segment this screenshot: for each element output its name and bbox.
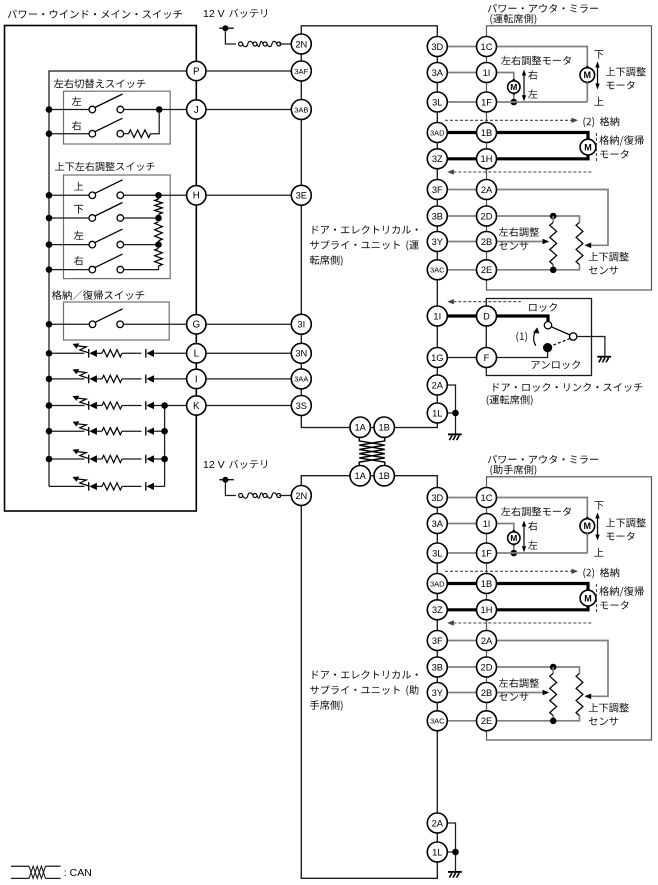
connector pin 2A bbox=[427, 375, 447, 395]
label hidari 1 bbox=[72, 97, 82, 106]
switch 左 (UDLR adjust) bbox=[89, 229, 124, 248]
junction chain mid1 bbox=[155, 215, 162, 222]
wire migi2 row to chain bbox=[124, 266, 159, 270]
wire L to 3N bbox=[206, 352, 292, 354]
dashed arrow return driver bbox=[447, 169, 593, 174]
svg-text:1F: 1F bbox=[481, 548, 492, 558]
svg-text:1F: 1F bbox=[481, 97, 492, 107]
label UD sensor l1 driver bbox=[589, 252, 629, 262]
connector pin 1I bbox=[477, 63, 497, 83]
svg-text:2A: 2A bbox=[432, 818, 444, 828]
wire LR sensor top lead driver bbox=[552, 216, 554, 222]
illumination LED branch aux4 bbox=[49, 449, 165, 463]
connector pin 1H bbox=[477, 600, 497, 620]
svg-text:3AF: 3AF bbox=[294, 67, 308, 76]
svg-text:12 V: 12 V bbox=[203, 8, 225, 20]
12V battery node passenger bbox=[219, 477, 234, 483]
junction sensor top passenger bbox=[550, 664, 557, 671]
wire battery drop driver bbox=[225, 28, 236, 44]
junction ground passenger bbox=[452, 849, 459, 856]
actuation arrow (1) bbox=[533, 327, 539, 345]
label migi arrow driver bbox=[528, 70, 537, 79]
dashed arrow retract passenger bbox=[445, 569, 578, 574]
connector pin 3Z bbox=[427, 600, 447, 620]
connector pin 3F bbox=[427, 180, 447, 200]
svg-text:3I: 3I bbox=[297, 320, 305, 330]
connector pin 1A bbox=[350, 466, 370, 486]
connector pin 2A bbox=[427, 813, 447, 833]
wire 3Y to 2B driver bbox=[447, 241, 477, 243]
CAN legend symbol bbox=[11, 866, 61, 878]
wire 3D to 1C driver bbox=[447, 46, 477, 48]
connector pin 2D bbox=[477, 657, 497, 677]
wire 3L to 1F passenger bbox=[447, 552, 477, 554]
label UD sensor l2 passenger bbox=[589, 717, 618, 725]
wire G to 3I bbox=[206, 323, 292, 325]
svg-text:1B: 1B bbox=[379, 471, 390, 481]
battery feed coil passenger bbox=[239, 493, 281, 498]
svg-text:L: L bbox=[194, 349, 200, 360]
svg-text:3Z: 3Z bbox=[432, 605, 443, 615]
svg-text:1B: 1B bbox=[379, 423, 390, 433]
junction bus migi bbox=[46, 130, 53, 137]
connector pin 2E bbox=[477, 260, 497, 280]
label 下 row bbox=[74, 205, 83, 214]
svg-text:1C: 1C bbox=[481, 42, 493, 52]
LR select switch box bbox=[64, 91, 171, 144]
junction sensor top driver bbox=[550, 213, 557, 220]
connector pin 1H bbox=[477, 149, 497, 169]
label LR adjust motor driver bbox=[501, 56, 571, 65]
connector pin L bbox=[187, 344, 206, 363]
label LR sensor l1 driver bbox=[499, 227, 539, 237]
wire bus to switch 上 bbox=[49, 194, 89, 196]
svg-text:3L: 3L bbox=[432, 548, 442, 558]
junction tie K bbox=[161, 402, 168, 409]
connector pin 3D bbox=[427, 488, 447, 508]
connector pin 1G bbox=[427, 348, 447, 368]
svg-text:M: M bbox=[584, 593, 592, 603]
junction sensor bottom driver bbox=[550, 267, 557, 274]
label migi 1 bbox=[72, 121, 81, 131]
connector pin 3Y bbox=[427, 683, 447, 703]
connector pin G bbox=[187, 315, 206, 334]
dashed arrow return passenger bbox=[447, 620, 593, 625]
label hidari arrow passenger bbox=[528, 540, 537, 549]
connector pin 1B bbox=[477, 574, 497, 594]
svg-text:M: M bbox=[584, 142, 592, 152]
label unit driver line2b bbox=[406, 240, 418, 250]
UDLR adjust switch box bbox=[64, 175, 171, 279]
dashed arrow unlock direction bbox=[447, 299, 521, 304]
junction bus led aux3 bbox=[46, 428, 53, 435]
wire 3AC to 2E passenger bbox=[447, 720, 477, 722]
svg-text:3AB: 3AB bbox=[294, 105, 308, 114]
connector pin 3L bbox=[427, 92, 447, 112]
label UD adjust motor l2 driver bbox=[607, 81, 635, 90]
connector pin 3E bbox=[291, 185, 311, 205]
door lock link switch box bbox=[486, 299, 591, 376]
wire hidari2 row to chain bbox=[124, 244, 159, 246]
connector pin 3AA bbox=[291, 369, 311, 389]
connector pin 3Z bbox=[427, 149, 447, 169]
label (2) kakunou passenger bbox=[583, 568, 594, 578]
wire 2A to ground driver bbox=[447, 385, 456, 413]
resistor chain 2 bbox=[155, 222, 163, 245]
junction hidari-migi tie bbox=[156, 106, 163, 113]
thick wire 3Z to 1H passenger bbox=[447, 608, 477, 611]
junction chain top bbox=[155, 192, 162, 199]
svg-text:1A: 1A bbox=[355, 471, 367, 481]
label retract motor l1 passenger bbox=[599, 586, 643, 597]
connector pin 2B bbox=[477, 683, 497, 703]
LR adjust motor M driver bbox=[508, 79, 520, 95]
UD adjust sensor resistor passenger bbox=[576, 673, 583, 715]
wire LR motor to 1F wire driver bbox=[513, 94, 515, 102]
wire coil to 2N passenger bbox=[279, 495, 291, 497]
label unit driver line2 bbox=[310, 240, 400, 249]
svg-text:2D: 2D bbox=[481, 211, 493, 221]
wire retract switch to G bbox=[123, 323, 186, 325]
svg-text:3E: 3E bbox=[296, 191, 307, 201]
arrow into UD sensor passenger bbox=[585, 694, 592, 700]
connector pin 1C bbox=[477, 488, 497, 508]
wire 3L to 1F driver bbox=[447, 101, 477, 103]
switch 右 (UDLR adjust) bbox=[89, 254, 124, 273]
connector pin J bbox=[187, 100, 206, 119]
label 12V battery driver bbox=[203, 8, 225, 20]
wire 3F to 2A passenger bbox=[447, 640, 477, 642]
connector pin 3AD bbox=[427, 574, 447, 594]
wire 1C to UD motor passenger bbox=[496, 498, 587, 519]
dashed line retract side driver bbox=[596, 133, 598, 162]
svg-text:3L: 3L bbox=[432, 97, 442, 107]
connector pin 1L bbox=[427, 842, 447, 862]
label unit passenger line3 bbox=[310, 700, 343, 711]
thick wire 3AD to 1B passenger bbox=[447, 582, 477, 585]
wire led tie line bbox=[164, 406, 166, 487]
svg-text:M: M bbox=[510, 82, 517, 92]
wire bus to switch hidari bbox=[49, 109, 89, 111]
connector pin 3B bbox=[427, 206, 447, 226]
label LR sensor l2 driver bbox=[499, 242, 528, 250]
svg-text:1H: 1H bbox=[481, 154, 493, 164]
junction tie aux5 bbox=[161, 456, 168, 463]
label ue arrow passenger bbox=[594, 548, 603, 557]
wire 2A sensor feed passenger bbox=[496, 641, 608, 697]
LR adjust motor M passenger bbox=[508, 530, 520, 546]
door electrical supply unit (passenger) box bbox=[301, 476, 437, 879]
connector pin H bbox=[187, 186, 206, 205]
connector pin 3D bbox=[427, 37, 447, 57]
svg-text:3AD: 3AD bbox=[430, 128, 445, 137]
connector pin 3N bbox=[291, 343, 311, 363]
wire 1G to F bbox=[447, 357, 477, 359]
svg-text:3AA: 3AA bbox=[294, 375, 308, 384]
connector pin 3AC bbox=[427, 260, 447, 280]
wire bus to switch migi bbox=[49, 133, 89, 135]
label UD sensor l2 driver bbox=[589, 266, 618, 274]
thick wire 1H to retract motor driver bbox=[496, 155, 588, 159]
junction LR motor 1F passenger bbox=[511, 550, 518, 557]
wire F to unlock contact bbox=[496, 352, 548, 358]
ground driver unit bbox=[448, 434, 462, 440]
svg-text:D: D bbox=[483, 311, 490, 321]
wire UD motor to 1F wire driver bbox=[586, 82, 588, 102]
wire 1F to motors passenger bbox=[496, 552, 587, 554]
svg-text:2A: 2A bbox=[432, 380, 444, 390]
door electrical supply unit (driver) box bbox=[301, 26, 437, 428]
svg-text:1L: 1L bbox=[432, 847, 442, 857]
common contact bbox=[570, 333, 577, 340]
label (2) kakunou b passenger bbox=[600, 568, 619, 577]
connector pin 3Y bbox=[427, 232, 447, 252]
wire 3Y to 2B passenger bbox=[447, 692, 477, 694]
wire J to 3AB bbox=[206, 109, 292, 111]
svg-text:I: I bbox=[195, 374, 198, 385]
connector pin 1B bbox=[477, 123, 497, 143]
wire shita row to chain bbox=[124, 217, 159, 219]
junction chain mid2 bbox=[155, 241, 162, 248]
double arrow LR passenger bbox=[522, 521, 526, 553]
label retract motor l2 passenger bbox=[600, 601, 628, 610]
svg-text:2D: 2D bbox=[481, 662, 493, 672]
svg-text:G: G bbox=[192, 320, 200, 331]
unlock contact bbox=[543, 343, 552, 352]
label ue arrow driver bbox=[594, 97, 603, 106]
label power outer mirror passenger l1 bbox=[488, 455, 598, 464]
svg-text:1I: 1I bbox=[483, 519, 491, 529]
connector pin 3AF bbox=[291, 61, 311, 81]
svg-text:3B: 3B bbox=[432, 662, 443, 672]
connector pin 1F bbox=[477, 92, 497, 112]
connector pin 2N bbox=[291, 34, 311, 54]
svg-text:M: M bbox=[584, 70, 592, 80]
wire 2B to LR sensor passenger bbox=[496, 692, 543, 694]
label (2) kakunou b driver bbox=[600, 117, 619, 126]
retract/return motor M passenger bbox=[580, 588, 596, 608]
wire bus to switch 左 bbox=[49, 244, 89, 246]
junction bus 右 bbox=[46, 266, 53, 273]
connector pin 1B bbox=[374, 466, 394, 486]
svg-text:2N: 2N bbox=[295, 39, 307, 49]
label UD sensor l1 passenger bbox=[589, 703, 629, 713]
illumination LED branch aux3 bbox=[49, 421, 165, 435]
svg-text:2B: 2B bbox=[481, 688, 492, 698]
illumination LED branch I bbox=[49, 369, 187, 383]
connector pin 1C bbox=[477, 37, 497, 57]
connector pin 3I bbox=[291, 314, 311, 334]
svg-text:2B: 2B bbox=[481, 237, 492, 247]
label unit passenger line1 bbox=[313, 670, 418, 679]
junction bus hidari bbox=[46, 106, 53, 113]
label lock bbox=[529, 303, 557, 312]
illumination LED branch L bbox=[49, 343, 187, 357]
connector pin 2B bbox=[477, 232, 497, 252]
label power outer mirror passenger l2 bbox=[490, 465, 536, 476]
switch 上 (UDLR adjust) bbox=[89, 180, 124, 199]
label LR sensor l2 passenger bbox=[499, 693, 528, 701]
wire bus to switch 右 bbox=[49, 269, 89, 271]
illumination LED branch aux5 bbox=[49, 477, 165, 491]
label shita arrow passenger bbox=[594, 501, 603, 510]
wire P to 3AF bbox=[206, 70, 292, 72]
svg-text:3AD: 3AD bbox=[430, 579, 445, 588]
wire resistor to tie bbox=[151, 110, 160, 134]
label battery katakana driver bbox=[229, 9, 267, 18]
svg-text:H: H bbox=[193, 191, 200, 202]
svg-text:K: K bbox=[193, 401, 200, 412]
connector pin 3S bbox=[291, 396, 311, 416]
label retract motor l2 driver bbox=[600, 150, 628, 159]
switch 下 (UDLR adjust) bbox=[89, 203, 124, 222]
dashed blade to unlock bbox=[552, 339, 570, 346]
junction bus 下 bbox=[46, 215, 53, 222]
LR adjust sensor resistor passenger bbox=[550, 673, 557, 715]
connector pin 3F bbox=[427, 631, 447, 651]
power window main switch box bbox=[5, 26, 197, 512]
wire 1L to ground driver bbox=[447, 413, 456, 434]
label power window main switch bbox=[8, 10, 182, 19]
switch hidari (LR select) bbox=[89, 94, 124, 113]
wire LR sensor bottom lead passenger bbox=[552, 716, 554, 721]
svg-text:1L: 1L bbox=[432, 408, 442, 418]
svg-text:1G: 1G bbox=[431, 353, 443, 363]
junction bus retract bbox=[46, 321, 53, 328]
label door lock link switch l1 bbox=[493, 383, 642, 392]
connector pin 1L bbox=[427, 403, 447, 423]
svg-text:1I: 1I bbox=[483, 68, 491, 78]
label power outer mirror driver l1 bbox=[488, 4, 598, 13]
retract/return switch box bbox=[64, 302, 170, 340]
connector pin 3A bbox=[427, 63, 447, 83]
svg-text:12 V: 12 V bbox=[203, 459, 225, 471]
label LR sensor l1 passenger bbox=[499, 678, 539, 688]
connector pin 2A bbox=[477, 631, 497, 651]
label 12V battery passenger bbox=[203, 459, 225, 471]
connector pin 2E bbox=[477, 711, 497, 731]
connector pin I bbox=[187, 369, 206, 388]
junction sensor bottom passenger bbox=[550, 718, 557, 725]
wire 3B to 2D passenger bbox=[447, 666, 477, 668]
label unit passenger line2 bbox=[310, 685, 400, 694]
svg-text:3AC: 3AC bbox=[430, 266, 445, 275]
label hidari arrow driver bbox=[528, 89, 537, 98]
switch blade lock bbox=[551, 327, 570, 335]
svg-text:1I: 1I bbox=[433, 311, 441, 321]
thick wire D to lock contact bbox=[496, 316, 548, 321]
connector pin 3AB bbox=[291, 100, 311, 120]
svg-text:: CAN: : CAN bbox=[64, 867, 92, 879]
lock contact bbox=[544, 322, 551, 329]
label shita arrow driver bbox=[594, 50, 603, 59]
dashed line retract side passenger bbox=[596, 584, 598, 613]
label 右 row bbox=[74, 256, 83, 266]
svg-text:1A: 1A bbox=[355, 423, 367, 433]
svg-text:1H: 1H bbox=[481, 605, 493, 615]
ground passenger unit bbox=[448, 872, 462, 878]
connector pin D bbox=[477, 306, 497, 326]
svg-text:3D: 3D bbox=[431, 42, 443, 52]
svg-text:1C: 1C bbox=[481, 493, 493, 503]
CAN twisted pair bbox=[359, 437, 385, 466]
double arrow UD driver bbox=[595, 62, 599, 90]
label unit passenger line2b bbox=[406, 685, 418, 696]
connector pin P bbox=[187, 61, 206, 80]
wire 2D to sensors top driver bbox=[496, 216, 579, 222]
wire battery drop passenger bbox=[225, 480, 236, 496]
wire 1I to LR motor driver bbox=[496, 73, 514, 80]
svg-text:3A: 3A bbox=[432, 68, 444, 78]
wire 2E to sensors bottom driver bbox=[496, 265, 579, 270]
svg-text:P: P bbox=[193, 66, 200, 77]
label unlock bbox=[532, 360, 580, 369]
svg-text:3F: 3F bbox=[432, 185, 443, 195]
label UD adjust motor l1 driver bbox=[606, 67, 646, 77]
thick wire 3Z to 1H driver bbox=[447, 157, 477, 160]
junction bus led K bbox=[46, 402, 53, 409]
connector pin 2D bbox=[477, 206, 497, 226]
svg-text:M: M bbox=[510, 533, 517, 543]
svg-text:3N: 3N bbox=[295, 349, 307, 359]
connector pin 3L bbox=[427, 543, 447, 563]
svg-text:F: F bbox=[484, 353, 490, 363]
wire LR motor to 1F wire passenger bbox=[513, 545, 515, 553]
dashed arrow retract driver bbox=[445, 118, 578, 123]
wire 3B to 2D driver bbox=[447, 215, 477, 217]
junction bus 上 bbox=[46, 192, 53, 199]
resistor chain 3 bbox=[155, 248, 163, 266]
svg-text:3Y: 3Y bbox=[432, 688, 443, 698]
junction ground driver bbox=[452, 410, 459, 417]
connector pin 1B bbox=[374, 417, 394, 437]
svg-text:3D: 3D bbox=[431, 493, 443, 503]
svg-text:M: M bbox=[584, 521, 592, 531]
switch migi (LR select) bbox=[89, 118, 124, 137]
power outer mirror box passenger bbox=[487, 477, 652, 740]
wire 2D to sensors top passenger bbox=[496, 667, 579, 673]
wire 3A to 1I passenger bbox=[447, 523, 477, 525]
label door lock link switch l2 bbox=[487, 395, 533, 406]
connector pin 1I bbox=[427, 306, 447, 326]
svg-text:1B: 1B bbox=[481, 579, 492, 589]
label (1) bbox=[516, 332, 527, 342]
wire 2E to sensors bottom passenger bbox=[496, 716, 579, 721]
wire LR sensor top lead passenger bbox=[552, 667, 554, 673]
junction bus led I bbox=[46, 376, 53, 383]
connector pin 3AC bbox=[427, 711, 447, 731]
wire ue row to H bbox=[124, 194, 187, 196]
svg-text:3F: 3F bbox=[432, 636, 443, 646]
arrow into LR sensor passenger bbox=[543, 690, 550, 696]
thick wire 1I to D bbox=[447, 314, 477, 317]
connector pin 1I bbox=[477, 514, 497, 534]
svg-text:2E: 2E bbox=[481, 716, 492, 726]
connector pin 1F bbox=[477, 543, 497, 563]
wire bus to switch 下 bbox=[49, 217, 89, 219]
svg-text:J: J bbox=[194, 105, 199, 116]
retract/return motor M driver bbox=[580, 137, 596, 157]
wire H to 3E bbox=[206, 194, 292, 196]
wire 2A to ground passenger bbox=[447, 823, 456, 852]
arrow into UD sensor driver bbox=[585, 243, 592, 249]
wire 3AC to 2E driver bbox=[447, 269, 477, 271]
label migi arrow passenger bbox=[528, 521, 537, 530]
svg-text:2A: 2A bbox=[481, 185, 493, 195]
illumination LED branch K bbox=[49, 396, 187, 410]
svg-text:3S: 3S bbox=[296, 401, 307, 411]
wire 3A to 1I driver bbox=[447, 72, 477, 74]
